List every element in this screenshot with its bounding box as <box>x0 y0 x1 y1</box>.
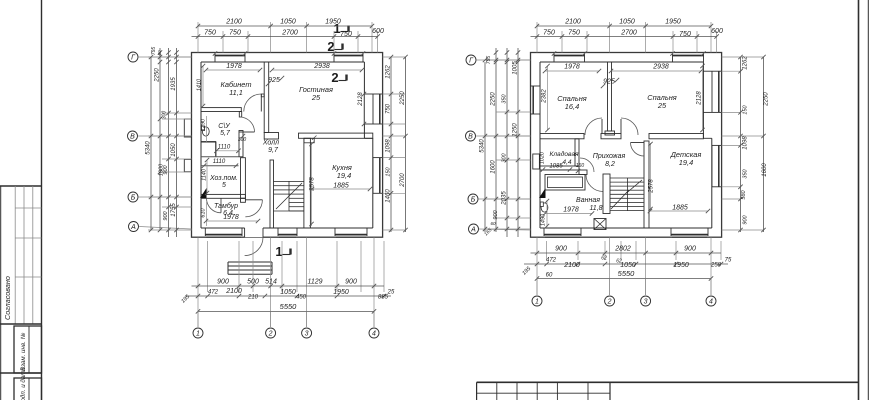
svg-text:2938: 2938 <box>313 63 330 70</box>
svg-text:А: А <box>130 224 136 231</box>
svg-text:25: 25 <box>311 93 321 102</box>
svg-text:4,4: 4,4 <box>562 159 571 166</box>
svg-text:750: 750 <box>229 30 241 37</box>
svg-text:5,7: 5,7 <box>220 130 231 137</box>
svg-text:750: 750 <box>204 30 216 37</box>
svg-text:В: В <box>468 134 473 141</box>
svg-text:2100: 2100 <box>564 19 581 26</box>
svg-text:11,1: 11,1 <box>229 88 243 97</box>
svg-text:1460: 1460 <box>386 189 392 203</box>
svg-text:900: 900 <box>493 209 499 219</box>
svg-text:580: 580 <box>741 189 747 199</box>
svg-text:5: 5 <box>222 182 226 189</box>
svg-text:5550: 5550 <box>280 302 298 311</box>
svg-text:2700: 2700 <box>281 30 298 37</box>
svg-text:Тамбур: Тамбур <box>214 202 238 210</box>
svg-text:60: 60 <box>490 221 496 226</box>
svg-text:1050: 1050 <box>620 262 636 269</box>
svg-text:Согласовано: Согласовано <box>3 276 12 320</box>
svg-text:11,8: 11,8 <box>589 205 602 212</box>
svg-text:2250: 2250 <box>155 68 161 83</box>
svg-text:150: 150 <box>386 166 392 176</box>
svg-text:472: 472 <box>546 258 557 264</box>
svg-text:2382: 2382 <box>542 89 548 104</box>
svg-text:62: 62 <box>601 256 607 262</box>
svg-text:2: 2 <box>327 39 334 54</box>
svg-text:1000: 1000 <box>159 163 165 176</box>
svg-text:2938: 2938 <box>652 64 669 71</box>
svg-text:300: 300 <box>238 137 247 143</box>
svg-text:925: 925 <box>268 77 280 84</box>
svg-text:1410: 1410 <box>197 78 203 91</box>
svg-text:19,4: 19,4 <box>679 158 693 167</box>
svg-text:А: А <box>470 227 476 234</box>
svg-text:Б: Б <box>131 195 136 202</box>
svg-text:1050: 1050 <box>280 289 296 296</box>
svg-text:Ванная: Ванная <box>576 197 600 204</box>
svg-text:2128: 2128 <box>358 92 364 107</box>
svg-text:1: 1 <box>196 331 200 338</box>
svg-text:600: 600 <box>711 28 723 35</box>
svg-text:472: 472 <box>208 290 219 296</box>
svg-text:1935: 1935 <box>171 77 177 91</box>
svg-text:С\У: С\У <box>218 123 231 130</box>
svg-text:150: 150 <box>743 104 749 114</box>
svg-text:Холл: Холл <box>262 140 279 147</box>
svg-text:795: 795 <box>486 56 492 65</box>
svg-text:16,4: 16,4 <box>565 102 579 111</box>
svg-text:750: 750 <box>543 30 555 37</box>
svg-text:2: 2 <box>331 70 338 85</box>
svg-text:350: 350 <box>502 93 508 103</box>
svg-text:В: В <box>130 134 135 141</box>
svg-text:1110: 1110 <box>218 145 231 151</box>
svg-text:1050: 1050 <box>171 143 177 157</box>
svg-text:2100: 2100 <box>225 19 242 26</box>
svg-text:25: 25 <box>657 101 667 110</box>
svg-text:5340: 5340 <box>480 139 486 153</box>
svg-text:2100: 2100 <box>225 288 242 295</box>
svg-text:610: 610 <box>201 207 207 217</box>
svg-text:Взам. инв. №: Взам. инв. № <box>20 332 27 371</box>
svg-text:450: 450 <box>296 295 307 301</box>
svg-text:75: 75 <box>725 258 732 264</box>
svg-text:1885: 1885 <box>672 205 688 212</box>
svg-text:1: 1 <box>535 299 539 306</box>
svg-text:5340: 5340 <box>146 141 152 155</box>
svg-text:Кладовая: Кладовая <box>549 150 579 158</box>
svg-text:60: 60 <box>546 273 553 279</box>
svg-text:1140: 1140 <box>202 168 208 181</box>
svg-text:5550: 5550 <box>618 269 636 278</box>
svg-text:160: 160 <box>576 163 585 169</box>
svg-text:1098: 1098 <box>386 139 392 153</box>
svg-text:1098: 1098 <box>743 136 749 150</box>
svg-text:300: 300 <box>502 152 508 162</box>
svg-text:500: 500 <box>247 279 259 286</box>
svg-text:1110: 1110 <box>213 159 226 165</box>
svg-text:Б: Б <box>471 197 476 204</box>
svg-text:2035: 2035 <box>502 191 508 206</box>
svg-text:750: 750 <box>568 30 580 37</box>
svg-text:900: 900 <box>555 246 567 253</box>
svg-text:2578: 2578 <box>310 177 316 192</box>
svg-text:8,2: 8,2 <box>605 161 615 168</box>
svg-text:2: 2 <box>268 331 273 338</box>
svg-text:1978: 1978 <box>226 63 242 70</box>
svg-text:1755: 1755 <box>171 203 177 217</box>
svg-text:2700: 2700 <box>400 173 406 188</box>
svg-text:900: 900 <box>345 279 357 286</box>
svg-text:19,4: 19,4 <box>337 171 351 180</box>
svg-text:Подп. и дата: Подп. и дата <box>20 367 27 400</box>
svg-text:1600: 1600 <box>491 160 497 174</box>
svg-text:1050: 1050 <box>280 19 296 26</box>
svg-text:1050: 1050 <box>619 19 635 26</box>
svg-text:1490: 1490 <box>541 213 547 226</box>
svg-text:900: 900 <box>684 246 696 253</box>
svg-text:1005: 1005 <box>513 61 519 75</box>
svg-text:750: 750 <box>679 31 691 38</box>
svg-text:514: 514 <box>265 279 277 286</box>
svg-text:300: 300 <box>162 111 168 120</box>
svg-text:2100: 2100 <box>563 262 580 269</box>
svg-text:3: 3 <box>305 331 309 338</box>
svg-text:1978: 1978 <box>223 214 239 221</box>
svg-text:1: 1 <box>275 244 282 259</box>
svg-text:750: 750 <box>340 31 352 38</box>
svg-text:2128: 2128 <box>697 91 703 106</box>
svg-text:750: 750 <box>386 103 392 114</box>
svg-text:350: 350 <box>743 168 749 178</box>
svg-text:900: 900 <box>217 279 229 286</box>
svg-text:9,7: 9,7 <box>268 147 279 154</box>
svg-text:Хоз.пом.: Хоз.пом. <box>209 175 238 182</box>
svg-text:1262: 1262 <box>743 56 749 70</box>
svg-text:4: 4 <box>372 331 376 338</box>
svg-text:1262: 1262 <box>386 65 392 79</box>
svg-text:1978: 1978 <box>563 207 579 214</box>
svg-text:1950: 1950 <box>325 19 341 26</box>
svg-text:2250: 2250 <box>400 91 406 106</box>
svg-text:4: 4 <box>709 299 713 306</box>
svg-text:1978: 1978 <box>564 64 580 71</box>
svg-text:1600: 1600 <box>762 163 768 177</box>
svg-text:3: 3 <box>644 299 648 306</box>
svg-text:1020: 1020 <box>540 151 546 164</box>
svg-text:2250: 2250 <box>491 92 497 107</box>
svg-text:900: 900 <box>163 210 169 220</box>
svg-text:Прихожая: Прихожая <box>593 153 626 160</box>
svg-text:1250: 1250 <box>513 123 519 137</box>
svg-text:1129: 1129 <box>307 279 322 286</box>
svg-text:1290: 1290 <box>201 118 207 131</box>
svg-text:1950: 1950 <box>665 19 681 26</box>
svg-text:2700: 2700 <box>620 30 637 37</box>
svg-text:258: 258 <box>710 263 722 269</box>
svg-text:2: 2 <box>607 299 612 306</box>
svg-text:60: 60 <box>157 50 162 56</box>
svg-text:2578: 2578 <box>649 179 655 194</box>
svg-text:1950: 1950 <box>333 289 349 296</box>
svg-text:2250: 2250 <box>764 92 770 107</box>
svg-text:1950: 1950 <box>673 262 689 269</box>
svg-text:900: 900 <box>743 214 749 224</box>
svg-text:1885: 1885 <box>333 183 349 190</box>
svg-text:600: 600 <box>372 28 384 35</box>
svg-text:210: 210 <box>247 295 259 301</box>
svg-text:2802: 2802 <box>614 246 631 253</box>
svg-text:25: 25 <box>387 290 395 296</box>
svg-text:1085: 1085 <box>549 164 563 170</box>
